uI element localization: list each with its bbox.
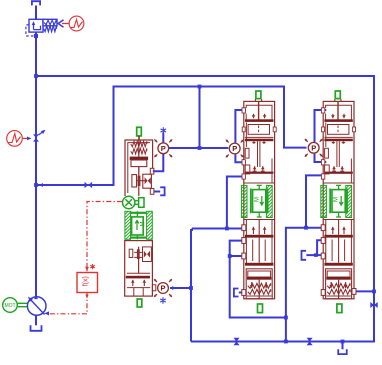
left valve LV1: lower spool <box>129 249 133 257</box>
left valve LV1: spool section <box>132 175 137 187</box>
FCV2 right port tab <box>352 289 356 295</box>
function block f(x) <box>77 273 98 293</box>
wire: left valve right port to side tank <box>154 191 161 193</box>
wire: y=227.7 link line into right valve <box>286 227 325 229</box>
plug star above C1 <box>161 127 167 133</box>
compensator C1 (left valve, top) <box>154 139 172 157</box>
node: junction (285.7,318.5) <box>284 316 288 320</box>
left valve LV1: neck under tank <box>138 136 140 140</box>
node: junction (226.9,228.5) <box>225 227 229 231</box>
FCV2: centre stem and metering arrows <box>336 141 338 167</box>
wire: C2 top loop into middle valve upper-left port <box>235 110 246 143</box>
node: junction (229.7,256) <box>228 254 232 258</box>
shaft between motor and pump <box>18 302 28 304</box>
FCV1: left wall chamber tabs <box>245 148 249 158</box>
wire: right valve right port to far-right rail <box>351 290 374 292</box>
FCV2: port nubs left <box>321 108 324 113</box>
FCV1: mass with hatched guides <box>241 185 247 217</box>
node: junction (285.7,341.5) <box>284 340 288 344</box>
svg-text:M: M <box>254 197 260 202</box>
FCV1: port nubs left <box>242 108 245 113</box>
tank T2 (left valve side) <box>160 187 164 195</box>
FCV2: neck below tank <box>335 99 341 101</box>
wire: C3 bottom into right valve left port <box>315 154 327 162</box>
wire: stub to middle valve port y=256 <box>230 255 247 257</box>
node: junction (342.5,341.5) with tank below bus <box>341 340 345 344</box>
FCV1: body outline <box>244 101 275 298</box>
signal line from sensor to f(x) (red dash-dot) <box>87 202 122 272</box>
wire: S1 arrow into spring <box>62 23 69 25</box>
compensator C3 (right valve) <box>305 139 323 157</box>
FCV2: bottom green tank <box>337 304 342 313</box>
orifice R5 on right rail at (374,305) <box>370 302 377 308</box>
tank T6 (below pump) <box>31 325 42 331</box>
FCV2: body outline <box>323 101 354 298</box>
left valve LV1: spool position sensor (green circle-X) <box>123 196 135 208</box>
wire: middle valve lower-left tank stub <box>239 292 247 294</box>
wire: top rail y=76 to far right and down to bottom bus <box>36 76 374 342</box>
wire: drop from rail at x=199.5 to compensator line y=148 <box>199 87 201 149</box>
arrow into f(x) <box>85 267 89 272</box>
wire: C2 bottom into middle valve left port <box>235 154 245 162</box>
orifice R4 on bottom bus at (309.6,341.5) <box>307 338 313 345</box>
FCV2: left wall chamber tabs <box>325 148 329 158</box>
tank T4 (right valve side) <box>302 251 307 260</box>
star at f(x) input <box>90 264 95 269</box>
orifice R3 on bottom bus at (236.5,341.5) <box>233 338 239 345</box>
wire: mid rail y=185 up over to y=86.5 then to right compensators <box>36 87 307 186</box>
svg-text:P: P <box>311 144 316 153</box>
wire: C4 output to riser <box>170 287 191 289</box>
FCV2: diamond marks <box>331 141 335 144</box>
node: pilot junction (36,36) <box>34 34 38 38</box>
orifice R1 on mid rail at (88.3,185) <box>85 182 93 188</box>
svg-text:P: P <box>232 144 237 153</box>
node: junction (315.9,255.1) <box>314 253 318 257</box>
left valve LV1: body frame <box>125 140 153 196</box>
FCV1: bottom green tank <box>258 304 263 313</box>
wire: compensator pilot line y=148 between C1 and C2 <box>169 147 228 149</box>
wire: tank stub above relief valve <box>35 6 37 20</box>
relief valve pilot dashed line <box>26 25 34 36</box>
wire: pump outlet stub to tank below pump <box>35 316 37 326</box>
signal source S2 (red, to variable orifice) <box>7 131 23 147</box>
node: junction (199.5,86.5) <box>198 85 202 89</box>
tank T1 (top of relief valve) <box>32 1 40 5</box>
left valve LV1: piston <box>130 157 148 160</box>
FCV2: bottom spring section <box>326 269 352 299</box>
wire: C1 top stub to plugged port <box>162 133 164 143</box>
wire: C1 bottom into left valve right port <box>153 154 164 171</box>
relief valve body <box>29 19 43 32</box>
FCV2: port tabs lower-left <box>321 225 325 231</box>
svg-text:MOT: MOT <box>4 303 15 309</box>
pump control arrowhead (from f(x) line) <box>44 311 49 315</box>
wire: C3 top loop into right valve upper-left port <box>315 110 327 142</box>
arrow out of f(x) <box>85 295 88 299</box>
wire: right valve ports y=240.3/255.1 to side tank <box>306 240 321 255</box>
wire: left riser x=191 down to bottom bus <box>191 229 192 342</box>
relief valve spring (in box) <box>44 20 56 24</box>
node: junction at (36,185) with arrowhead <box>34 183 38 187</box>
left valve LV1: right port to C4 <box>152 285 155 291</box>
signal line from f(x) to pump (red dash-dot) <box>48 293 87 314</box>
svg-text:P: P <box>161 144 166 153</box>
left valve LV1: sensor fitting <box>135 200 139 202</box>
left valve LV1: bottom green tank <box>137 299 142 307</box>
motor MOT (green circle) <box>3 298 18 313</box>
wire: right valve port y=175.4 and drop x=306 <box>306 175 325 227</box>
pump P1 (variable displacement) <box>27 297 46 316</box>
variable orifice R2 at (36,138) with arrow <box>33 134 39 141</box>
FCV2: upper section dividers <box>326 105 352 119</box>
signal source S1 (red, to relief valve spring) <box>69 16 84 31</box>
FCV2: mass with hatched guides <box>321 185 327 217</box>
wire: S2 arrow into orifice <box>23 137 29 139</box>
svg-text:P: P <box>160 284 165 293</box>
relief valve spring below <box>44 26 57 32</box>
wire: middle valve port y=176.5 and drop x=226.9 <box>227 177 246 229</box>
left valve LV1: right port tabs <box>150 168 154 174</box>
wire: middle valve port y=240.6 drop to y=318.5 and over to x=285.7 <box>230 241 286 318</box>
FCV1: wide piston box <box>248 125 269 135</box>
FCV1: lower body <box>245 220 247 264</box>
FCV1: bottom spring section <box>246 269 272 299</box>
compensator C4 (left valve, bottom) <box>154 279 172 297</box>
node: junction (199.5,148) <box>198 146 202 150</box>
FCV1: centre stem and metering arrows <box>257 141 259 167</box>
relief valve internal arrow <box>33 24 35 30</box>
svg-text:M: M <box>334 197 340 202</box>
FCV2: top green tank <box>335 91 340 99</box>
left valve LV1: lower body <box>125 241 153 297</box>
wire: y=228.5 link line to middle valve <box>192 228 246 230</box>
left valve LV1: mass with hatched guides <box>125 211 131 239</box>
node: junction (191,288) <box>189 286 193 290</box>
FCV1: diamond marks <box>252 141 256 144</box>
pump outlet arrow <box>34 295 38 300</box>
FCV1: port tabs lower-left <box>242 225 246 231</box>
svg-text:M: M <box>141 222 147 227</box>
FCV1: upper section dividers <box>246 105 272 119</box>
FCV1: top green tank <box>256 91 261 99</box>
left valve LV1: spring stack <box>131 141 147 147</box>
tank T5 (bottom bus) <box>338 349 347 354</box>
node: junction on supply at (36,76) <box>34 74 38 78</box>
tank T3 (middle valve lower-left) <box>234 289 239 297</box>
FCV1: neck below tank <box>255 99 261 101</box>
wire: riser x=285.7 down to bottom bus <box>285 228 287 342</box>
left valve LV1: top green tank <box>137 127 142 136</box>
FCV2: wide piston box <box>328 125 349 135</box>
plug star below C4 <box>160 297 166 303</box>
left valve LV1: lower piston <box>127 272 150 274</box>
svg-text:f(x): f(x) <box>83 276 90 286</box>
node: junction (306,227.7) <box>304 226 308 230</box>
compensator C2 (middle valve) <box>226 140 244 158</box>
FCV2: lower body <box>325 220 327 264</box>
node: junction (374,291.4) <box>372 290 376 294</box>
wire: main supply line from relief valve down to pump <box>35 32 37 297</box>
